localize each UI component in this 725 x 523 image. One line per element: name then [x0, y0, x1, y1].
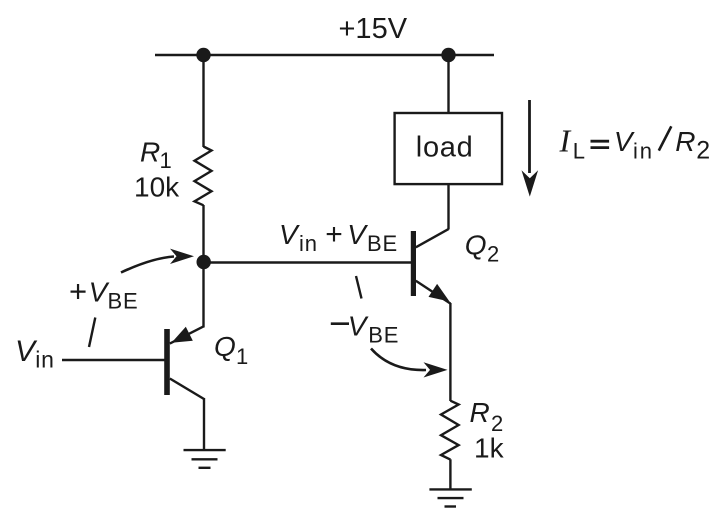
- svg-text:in: in: [299, 231, 318, 256]
- wire node B to Q2 base: [204, 261, 411, 263]
- Q2 emitter arrowhead (NPN pointing out): [429, 284, 450, 302]
- svg-text:1: 1: [160, 148, 172, 173]
- svg-text:1k: 1k: [474, 433, 505, 464]
- minus sign of -VBE label: [331, 322, 349, 325]
- wire rail down to load box: [447, 55, 449, 113]
- transistor Q1 base bar: [164, 329, 170, 395]
- svg-text:L: L: [573, 139, 585, 164]
- svg-text:I: I: [559, 122, 572, 158]
- svg-text:BE: BE: [368, 323, 399, 348]
- svg-text:+15V: +15V: [339, 13, 408, 45]
- leader tick for -VBE label: [356, 276, 362, 299]
- svg-text:in: in: [633, 139, 654, 164]
- wire Q2 emitter down to R2: [449, 303, 451, 401]
- junction dot at rail / load branch: [441, 48, 455, 62]
- svg-text:2: 2: [487, 242, 499, 267]
- arrowhead of IL arrow: [522, 170, 539, 196]
- svg-text:Q: Q: [465, 229, 487, 260]
- svg-text:in: in: [35, 346, 55, 372]
- svg-text:R: R: [140, 136, 160, 167]
- svg-text:V: V: [279, 219, 300, 250]
- junction dot node B: [197, 255, 211, 269]
- svg-text:BE: BE: [367, 231, 398, 256]
- svg-text:V: V: [348, 311, 369, 342]
- arrowhead of -VBE curved arrow: [424, 362, 448, 377]
- curved arrow from +VBE toward node B: [121, 257, 174, 273]
- wire +15V supply rail: [155, 54, 494, 56]
- transistor Q2 base bar: [411, 231, 416, 296]
- svg-text:2: 2: [696, 137, 710, 165]
- equals sign in formula: [591, 140, 610, 143]
- svg-text:load: load: [416, 132, 474, 164]
- resistor R1: [195, 147, 212, 206]
- svg-text:BE: BE: [108, 289, 139, 314]
- svg-text:V: V: [89, 277, 110, 308]
- load current arrow IL stem: [528, 100, 531, 173]
- wire Q1 collector to ground: [203, 398, 205, 450]
- svg-text:V: V: [347, 219, 368, 250]
- svg-text:R: R: [470, 397, 490, 428]
- svg-text:10k: 10k: [134, 172, 180, 203]
- svg-text:V: V: [614, 126, 635, 157]
- wire node B down to Q1 emitter: [202, 262, 204, 328]
- wire rail down to R1 top: [202, 55, 204, 147]
- Q1 emitter arrowhead (PNP pointing into base): [172, 327, 193, 343]
- ground symbol for R2: [429, 489, 471, 506]
- curved arrow from -VBE toward Q2 emitter: [371, 349, 426, 371]
- slash in formula: [659, 126, 672, 150]
- leader tick for +VBE label: [89, 318, 95, 348]
- wire Vin to Q1 base: [62, 359, 165, 361]
- transistor Q1 emitter diagonal: [170, 326, 204, 343]
- svg-text:+: +: [325, 218, 343, 251]
- svg-text:1: 1: [236, 344, 248, 369]
- svg-text:Q: Q: [214, 331, 236, 362]
- ground symbol for Q1: [184, 450, 226, 468]
- transistor Q2 collector diagonal: [416, 229, 449, 247]
- transistor Q1 collector diagonal: [170, 379, 204, 400]
- load box: [395, 113, 502, 184]
- svg-text:+: +: [69, 273, 87, 308]
- wire load box bottom to Q2 collector: [447, 184, 449, 230]
- wire R1 bottom to node B: [202, 205, 204, 262]
- junction dot at rail / R1: [196, 48, 210, 62]
- resistor R2: [441, 401, 459, 460]
- svg-text:R: R: [675, 126, 695, 157]
- transistor Q2 emitter diagonal: [416, 281, 451, 304]
- wire R2 bottom to ground: [449, 459, 451, 489]
- arrowhead of +VBE curved arrow: [170, 249, 194, 264]
